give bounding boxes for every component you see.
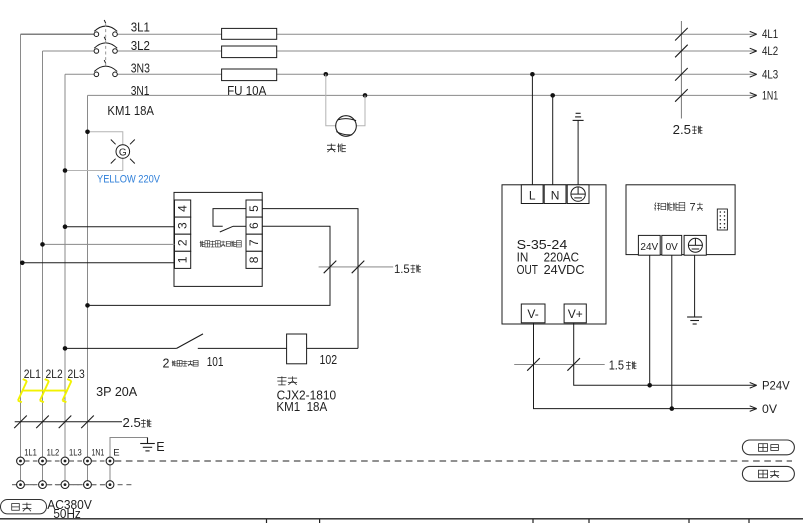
svg-text:3P 20A: 3P 20A (96, 385, 138, 399)
svg-text:1.5: 1.5 (609, 358, 624, 372)
wire-size marker vertical 2.5 sq (680, 21, 682, 119)
wire 3N3 to pin 3 (65, 226, 175, 228)
terminal E row1 (106, 457, 114, 465)
svg-text:P24V: P24V (762, 381, 790, 393)
svg-text:24V: 24V (640, 242, 658, 253)
relay terminal pin 6 (246, 217, 262, 234)
relay terminal pin 7 (246, 234, 262, 251)
HMI terminal 0V (662, 235, 682, 255)
relay terminal pin 1 (175, 251, 191, 268)
arrow 4L3 (750, 72, 757, 75)
svg-text:5: 5 (247, 205, 261, 212)
wire lamp bottom (65, 158, 123, 170)
title block tick x319.6 (319, 519, 321, 523)
dashes between row1 circles (25, 460, 38, 462)
svg-text:7: 7 (247, 239, 261, 246)
svg-text:0V: 0V (666, 242, 679, 253)
title block tick x589 (588, 519, 590, 523)
terminal 1L2 row1 (39, 457, 47, 465)
cabinet boundary dashed line (115, 460, 792, 462)
breaker pole 3N3 (94, 60, 117, 77)
relay name text (duan xiang ... bao hu qi) (200, 241, 205, 247)
fuse FU 3N3 (222, 69, 277, 81)
svg-text:FU 10A: FU 10A (227, 84, 267, 98)
breaker pole 3L1 (94, 20, 117, 37)
svg-text:6: 6 (247, 222, 261, 229)
junction lamp to 3N1 feeder (85, 130, 90, 135)
svg-text:4L2: 4L2 (762, 46, 778, 58)
slash on V+ wire (567, 358, 580, 371)
junction lamp to 3N3 feeder (63, 168, 68, 173)
relay terminal pin 4 (175, 200, 191, 217)
svg-text:2L1: 2L1 (24, 367, 41, 381)
fan motor symbol (336, 116, 357, 137)
title block top line (0, 518, 803, 520)
arrow P24V (750, 383, 757, 386)
cabinet-outside (gui wai) rounded box (742, 466, 794, 481)
title block tick x533 (532, 519, 534, 523)
wire 3L2 bus (117, 50, 756, 52)
svg-text:G: G (119, 147, 127, 158)
slash on x358 wire (352, 261, 365, 274)
svg-text:1: 1 (176, 256, 190, 263)
wire PSU N up to 3N1 (552, 95, 554, 184)
slash mark on 3N1 (675, 89, 688, 102)
breaker pole 3L2 (94, 37, 117, 54)
terminal 1L1 row1 (17, 457, 25, 465)
wire 3L2 feeder left segment (43, 50, 95, 52)
wire 3L1 vertical feeder (20, 34, 22, 457)
svg-text:1N1: 1N1 (92, 448, 105, 459)
switch SA 2-position blade (177, 334, 203, 349)
wire 3N3 bus (117, 73, 756, 75)
wire E terminal to ground (110, 438, 148, 458)
relay terminal pin 5 (246, 200, 262, 217)
PSU terminal PE (567, 185, 589, 204)
wire PSU L up to 3N3 (531, 74, 533, 185)
wire 3N1 bus (88, 94, 757, 96)
svg-text:4L3: 4L3 (762, 69, 778, 81)
ground symbol above PSU (573, 113, 584, 120)
svg-text:3N1: 3N1 (131, 83, 150, 98)
svg-text:4: 4 (176, 205, 190, 212)
svg-text:24VDC: 24VDC (544, 263, 585, 277)
svg-text:2: 2 (163, 356, 170, 370)
feeder link 1L3 rows (64, 461, 66, 485)
wire V+ to P24V (574, 323, 757, 386)
wire pin 5 to node x358 (262, 209, 358, 349)
terminal row2 dashed (12, 484, 133, 486)
PSU terminal L (521, 185, 543, 204)
breaker 3P pole 1 (yellow) (18, 379, 27, 402)
wire V- to 0V (534, 323, 757, 409)
svg-text:2L3: 2L3 (68, 367, 85, 381)
svg-text:N: N (551, 189, 560, 203)
feeder link 1N1 rows (87, 461, 89, 485)
wire fan right (356, 95, 365, 125)
title block tick x266.5 (266, 519, 268, 523)
feeder link E rows (109, 461, 111, 485)
arrow 0V (750, 406, 757, 409)
svg-text:2.5: 2.5 (673, 122, 691, 137)
svg-text:1L1: 1L1 (24, 448, 37, 459)
svg-text:8: 8 (247, 256, 261, 263)
wire-size leader 1.5 sq (319, 266, 394, 268)
terminal E row2 (106, 481, 114, 489)
wire HMI 24V down (649, 255, 651, 385)
cabinet-inside (gui nei) rounded box (742, 440, 794, 455)
svg-text:101: 101 (207, 355, 224, 369)
slash on x330 wire (324, 261, 337, 274)
svg-text:E: E (156, 440, 164, 454)
breaker 3P pole 2 (yellow) (40, 379, 49, 402)
svg-text:4L1: 4L1 (762, 29, 778, 41)
slash on V- wire (527, 358, 540, 371)
svg-text:L: L (529, 189, 536, 203)
svg-text:1.5: 1.5 (394, 262, 410, 276)
wire HMI 0V down (671, 255, 673, 408)
fuse FU 3L1 (222, 28, 277, 39)
terminal 1N1 row1 (84, 457, 92, 465)
HMI connector (717, 209, 727, 230)
slash mark x42 (36, 416, 49, 429)
ground symbol E (147, 438, 149, 444)
PSU terminal V- (521, 304, 545, 323)
svg-text:V-: V- (527, 307, 538, 321)
svg-text:2L2: 2L2 (46, 367, 63, 381)
svg-text:1L3: 1L3 (69, 448, 82, 459)
title block tick x749 (748, 519, 750, 523)
svg-text:2: 2 (176, 239, 190, 246)
HMI terminal PE (684, 235, 706, 255)
svg-text:102: 102 (320, 353, 338, 367)
junction pin6 wire to 3N1 feeder (85, 303, 90, 308)
svg-text:KM1 18A: KM1 18A (107, 103, 154, 118)
svg-text:KM1 18A: KM1 18A (276, 400, 327, 414)
wire 3L1 to pin 1 (21, 262, 175, 264)
slash mark x87 (81, 416, 94, 429)
arrow 4L2 (750, 48, 757, 51)
svg-text:E: E (113, 448, 119, 459)
svg-text:YELLOW 220V: YELLOW 220V (97, 173, 161, 185)
svg-text:7: 7 (690, 202, 696, 214)
slash mark on 3L2 (675, 45, 688, 58)
svg-text:3L1: 3L1 (131, 20, 150, 35)
breaker 3P pole 3 (yellow) (62, 379, 71, 402)
slash mark x20 (14, 416, 27, 429)
svg-text:3N3: 3N3 (131, 60, 150, 75)
junction HMI 24V on P24V (647, 383, 652, 388)
wire lamp top (88, 132, 123, 145)
title block tick x689 (688, 519, 690, 523)
wire 3N3 vertical feeder (64, 74, 66, 457)
relay terminal pin 2 (175, 234, 191, 251)
slash mark x65 (59, 416, 72, 429)
svg-text:V+: V+ (568, 307, 583, 321)
svg-text:1N1: 1N1 (762, 90, 778, 102)
wire 3N3 feeder to switch (65, 347, 177, 349)
wire-size leader 1.5 sq DC (514, 363, 605, 365)
junction fan to 3N1 (363, 93, 368, 98)
lamp G yellow indicator (111, 140, 135, 164)
wire 3L2 vertical feeder (42, 51, 44, 457)
wire pin 6 to node x330 (88, 226, 331, 305)
wire 3N3 feeder left segment (65, 73, 94, 75)
wire-size leader 2.5 sq bottom (15, 421, 122, 423)
label weilun touchscreen 7 inch (655, 202, 660, 210)
relay internal contact (213, 209, 246, 227)
wire HMI PE down to ground (694, 255, 696, 317)
terminal 1L3 row1 (61, 457, 69, 465)
junction PSU N to 3N1 (550, 93, 555, 98)
svg-text:3: 3 (176, 222, 190, 229)
svg-text:3L2: 3L2 (131, 38, 150, 53)
svg-text:OUT: OUT (517, 263, 539, 277)
terminal 1N1 row2 (84, 481, 92, 489)
power supply U2 S-35-24 box (502, 185, 606, 324)
feeder link 1L1 rows (20, 461, 22, 485)
wire 3N1 vertical feeder (87, 95, 89, 457)
junction fan to 3N3 (324, 72, 329, 77)
contactor coil KM1 (287, 334, 307, 364)
feeder link 1L2 rows (42, 461, 44, 485)
svg-text:0V: 0V (762, 404, 777, 416)
wire PSU PE up to ground (577, 120, 579, 184)
wire 3L1 bus (117, 33, 756, 35)
wire coil to node x358 (102) (307, 347, 358, 349)
dashes between row2 circles (25, 484, 38, 486)
relay terminal pin 3 (175, 217, 191, 234)
junction HMI 0V on 0V (670, 406, 675, 411)
slash mark on 3L1 (675, 28, 688, 41)
svg-text:1L2: 1L2 (47, 448, 60, 459)
wire 3L2 to pin 2 (43, 243, 175, 245)
relay terminal pin 8 (246, 251, 262, 268)
HMI terminal 24V (638, 235, 660, 255)
slash mark on 3N3 (675, 68, 688, 81)
wire fan left (326, 74, 336, 125)
PSU terminal V+ (564, 304, 586, 323)
terminal 1L3 row2 (61, 481, 69, 489)
wire switch to coil 101 (198, 347, 287, 349)
terminal 1L2 row2 (39, 481, 47, 489)
label Zhengtai (CHNT) (277, 376, 286, 385)
breaker 3P linkage (yellow) (23, 390, 68, 392)
breaker linkage dashed (105, 24, 107, 69)
PSU terminal N (544, 185, 566, 204)
svg-text:2.5: 2.5 (123, 416, 141, 430)
terminal 1L1 row2 (17, 481, 25, 489)
touchscreen HMI box (626, 185, 735, 255)
ground symbol below HMI (687, 317, 702, 324)
arrow 1N1 (750, 93, 757, 96)
customer (ke hu) rounded box (1, 500, 47, 514)
wire 3L1 feeder left segment (21, 33, 95, 35)
relay U1 phase-sequence protector box (174, 192, 262, 286)
junction PSU L to 3N3 (530, 72, 535, 77)
fuse FU 3L2 (222, 46, 277, 58)
arrow 4L1 (750, 31, 757, 34)
label fan (feng shan) (327, 144, 336, 153)
